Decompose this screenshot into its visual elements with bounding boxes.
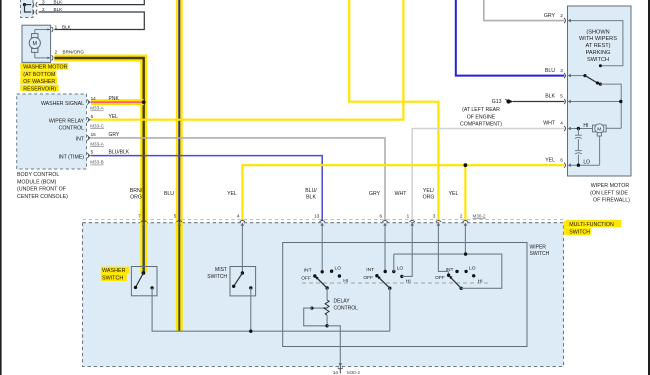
wire GRY to wiper motor pin 2 [484, 0, 565, 21]
svg-text:WHT: WHT [395, 191, 408, 197]
washer motor pin 1 symbol [47, 27, 53, 32]
parking switch caption [579, 29, 617, 63]
svg-text:M33-C: M33-C [90, 123, 104, 128]
junction HI [577, 127, 580, 130]
wire wafer 2 HI to pin 1 [402, 225, 412, 276]
svg-text:HI: HI [406, 278, 411, 284]
svg-text:PARKING: PARKING [586, 50, 611, 56]
svg-text:BLU/: BLU/ [305, 188, 317, 194]
wire BLK pin 2 (top connector) to washer motor pin 1 [25, 5, 145, 30]
svg-text:SWITCH: SWITCH [207, 274, 227, 280]
svg-text:GRY: GRY [109, 132, 120, 138]
svg-text:3: 3 [560, 68, 563, 73]
wire YEL wiper relay control [91, 0, 403, 120]
wiper switch wafer 1 feed from pin 13 [321, 225, 323, 272]
svg-text:YEL: YEL [227, 191, 237, 197]
svg-text:(UNDER FRONT OF: (UNDER FRONT OF [17, 187, 67, 193]
svg-text:OF ENGINE: OF ENGINE [467, 114, 496, 120]
svg-text:COMPARTMENT): COMPARTMENT) [460, 122, 502, 128]
svg-text:14: 14 [333, 370, 339, 375]
connector box (top left, cut off) [21, 0, 34, 18]
svg-text:CONTROL: CONTROL [59, 126, 84, 132]
label 3 BLK [42, 0, 63, 4]
svg-text:GRY: GRY [544, 13, 556, 19]
svg-text:2: 2 [55, 50, 58, 55]
junction LO [577, 164, 580, 167]
svg-text:INT: INT [446, 267, 454, 273]
wire LO inside wiper motor [571, 136, 600, 165]
svg-text:M: M [33, 41, 38, 47]
wiper motor box [568, 6, 632, 176]
svg-text:BODY CONTROL: BODY CONTROL [17, 172, 59, 178]
label 2 BLK [42, 7, 63, 12]
svg-text:BLU/BLK: BLU/BLK [109, 150, 130, 156]
svg-text:WITH WIPERS: WITH WIPERS [579, 36, 617, 42]
wire wafer 2 LO to common net [393, 254, 395, 271]
svg-text:INT: INT [366, 267, 374, 273]
svg-text:BRN/: BRN/ [130, 188, 143, 194]
washer motor box [22, 25, 51, 62]
svg-text:7: 7 [138, 213, 141, 218]
svg-text:OFF: OFF [363, 275, 373, 281]
svg-text:4: 4 [560, 121, 563, 126]
svg-text:DELAY: DELAY [334, 298, 351, 304]
svg-text:3: 3 [42, 0, 45, 4]
BCM caption [17, 172, 68, 200]
svg-text:(ON LEFT SIDE: (ON LEFT SIDE [590, 190, 628, 196]
washer switch caption (highlighted) [101, 267, 130, 282]
svg-text:LO: LO [469, 266, 476, 272]
wire BLK inside wiper motor [571, 102, 621, 129]
mist switch caption [207, 267, 227, 280]
svg-text:M30-2: M30-2 [473, 213, 486, 218]
svg-text:PNK: PNK [109, 96, 120, 102]
wiper switch wafer 2 feed from pin 6 [384, 225, 386, 272]
BCM signal names [41, 101, 85, 160]
svg-text:G13: G13 [492, 99, 502, 105]
svg-text:BLK: BLK [306, 195, 316, 201]
svg-text:LO: LO [397, 266, 404, 272]
capacitor C1 [575, 129, 582, 139]
svg-text:WASHER SIGNAL: WASHER SIGNAL [41, 101, 84, 107]
svg-text:2: 2 [460, 213, 463, 218]
svg-text:1: 1 [55, 24, 58, 29]
wire WHT to wiper motor pin 4 [412, 129, 564, 222]
svg-text:WIPER MOTOR: WIPER MOTOR [591, 183, 630, 189]
svg-text:2: 2 [42, 7, 45, 12]
BCM connector ids [90, 106, 104, 165]
BCM box (body control module) [17, 94, 87, 169]
mechanical linkage (dashed) [302, 282, 490, 284]
parking switch wire loop (GRY net) [571, 21, 623, 66]
washer motor M (motor symbol) [29, 30, 50, 58]
parking switch arm (BLU net) [571, 74, 621, 102]
svg-text:15: 15 [91, 132, 97, 137]
svg-text:5: 5 [560, 94, 563, 99]
svg-text:AT REST): AT REST) [586, 43, 611, 49]
svg-text:CONTROL: CONTROL [334, 305, 359, 311]
wire mist switch feed from pin 4 [241, 225, 243, 273]
svg-text:WIPER: WIPER [530, 244, 547, 250]
svg-text:LO: LO [335, 265, 342, 271]
svg-text:LO: LO [583, 159, 590, 165]
pin 2 connector symbol [33, 10, 38, 15]
svg-text:5: 5 [91, 114, 94, 119]
label delay control [334, 298, 359, 311]
svg-text:1: 1 [407, 213, 410, 218]
svg-text:OF FIREWALL): OF FIREWALL) [593, 197, 630, 203]
resistor delay control [325, 288, 329, 326]
washer motor pin 2 symbol [47, 55, 53, 60]
multi-function switch box [83, 220, 564, 367]
wire BRN/ORG washer motor to multi-function switch pin 7 [54, 58, 143, 272]
svg-text:WASHER: WASHER [102, 268, 126, 274]
node junction in top connector [23, 3, 26, 6]
svg-text:M33-A: M33-A [90, 106, 104, 111]
svg-text:SWITCH: SWITCH [569, 230, 590, 236]
wiper motor pins 2,3,5,4,6 [564, 18, 571, 168]
svg-text:CENTER CONSOLE): CENTER CONSOLE) [17, 194, 68, 200]
wiper motor pin labels [543, 13, 563, 164]
svg-text:YEL: YEL [449, 191, 459, 197]
svg-text:14: 14 [91, 96, 97, 101]
svg-text:M30-2: M30-2 [347, 370, 360, 375]
washer motor caption (highlighted) [20, 63, 68, 92]
wiper switch wafer 3 arm [449, 276, 461, 289]
svg-text:BLK: BLK [545, 94, 555, 100]
wire washer switch to rail [152, 288, 390, 331]
svg-text:(AT LEFT REAR: (AT LEFT REAR [462, 107, 500, 113]
svg-text:BLU: BLU [545, 68, 555, 74]
svg-text:5: 5 [91, 150, 94, 155]
svg-text:4: 4 [237, 213, 240, 218]
wiper switch wafer 1 arm [315, 276, 327, 288]
svg-text:ORG: ORG [423, 195, 435, 201]
wiper switch box [283, 243, 527, 347]
potentiometer tap loop [304, 307, 327, 326]
svg-text:MODULE (BCM): MODULE (BCM) [17, 179, 57, 185]
junction pin 2 / common net [464, 252, 467, 255]
svg-text:YEL/: YEL/ [423, 188, 435, 194]
svg-text:YEL: YEL [545, 157, 555, 163]
G13 caption [460, 99, 502, 127]
wafer 3 labels [435, 266, 483, 285]
svg-text:OF WASHER: OF WASHER [23, 79, 55, 85]
wire to ground pin 14 [327, 326, 340, 374]
wire YEL wiper motor pin 6 to multi-function switch pins 4 and 2 [242, 165, 564, 221]
svg-text:BRN/ORG: BRN/ORG [63, 50, 85, 55]
svg-text:HI: HI [478, 278, 483, 284]
wiper switch wafer 3 contacts [447, 270, 476, 290]
svg-text:YEL: YEL [109, 114, 119, 120]
ground G13 symbol [505, 99, 513, 103]
svg-text:SWITCH: SWITCH [587, 57, 609, 63]
svg-text:WASHER MOTOR: WASHER MOTOR [23, 65, 67, 71]
wire colour labels above pins [130, 188, 459, 201]
capacitor C2 [575, 139, 582, 165]
wire BLU/BLK INT(TIME) [91, 156, 322, 221]
wire wafer 3 arm to common net (with pin 2) [394, 225, 502, 288]
svg-text:2: 2 [560, 13, 563, 18]
svg-text:OFF: OFF [301, 275, 311, 281]
svg-text:M33-B: M33-B [90, 160, 104, 165]
svg-text:M: M [597, 126, 601, 132]
wire PNK washer signal (highlighted) [91, 99, 144, 105]
svg-text:HI: HI [583, 123, 588, 129]
svg-text:5: 5 [174, 213, 177, 218]
svg-text:3: 3 [433, 213, 436, 218]
junction mist / rail [249, 330, 252, 333]
junction PNK / BRN-ORG [142, 100, 146, 104]
wafer 1 labels [301, 265, 348, 284]
svg-text:INT (TIME): INT (TIME) [58, 154, 84, 160]
svg-text:13: 13 [314, 213, 320, 218]
multi-function switch pin symbols [141, 220, 468, 225]
pin 14 labels [333, 370, 361, 375]
svg-text:BLK: BLK [54, 7, 64, 12]
washer switch [131, 267, 157, 296]
svg-text:HI: HI [343, 278, 348, 284]
svg-text:(SHOWN: (SHOWN [586, 29, 609, 35]
mist switch [230, 267, 256, 332]
junction resistor bottom [325, 324, 328, 327]
BCM pin labels [91, 96, 130, 156]
wiper switch wafer 3 feed from pin 3 [438, 225, 448, 275]
wiper switch wafer 1 contacts [313, 270, 341, 290]
svg-text:WIPER RELAY: WIPER RELAY [49, 119, 85, 125]
wiper motor M (motor symbol) [571, 124, 621, 136]
svg-text:INT: INT [76, 136, 85, 142]
svg-text:SWITCH: SWITCH [102, 276, 123, 282]
svg-text:MULTI-FUNCTION: MULTI-FUNCTION [569, 222, 614, 228]
svg-text:OFF: OFF [435, 275, 445, 281]
svg-text:(AT BOTTOM: (AT BOTTOM [23, 72, 55, 78]
wire BLU to wiper motor pin 3 [456, 0, 565, 76]
wafer 2 labels [363, 266, 410, 285]
svg-text:BLU: BLU [164, 191, 174, 197]
svg-text:RESERVOIR): RESERVOIR) [23, 86, 56, 92]
wire BLU (highlighted) to multi-function switch pin 5 [176, 0, 183, 331]
wire YEL/ORG to multi-function switch pin 3 [349, 0, 438, 221]
svg-text:BLK: BLK [54, 0, 64, 4]
junction BLK / parking arm [619, 100, 622, 103]
svg-text:BLK: BLK [62, 24, 72, 29]
svg-text:MIST: MIST [215, 267, 227, 273]
BCM pin symbols [87, 100, 91, 159]
label 1 BLK [55, 24, 72, 29]
svg-text:M33-A: M33-A [90, 141, 104, 146]
svg-text:ORG: ORG [130, 195, 142, 201]
svg-text:GRY: GRY [369, 191, 381, 197]
multi-function switch pin numbers [138, 213, 486, 218]
svg-text:WHT: WHT [543, 121, 556, 127]
wiper switch wafer 2 arm [377, 276, 390, 288]
svg-text:SWITCH: SWITCH [530, 251, 550, 257]
svg-text:6: 6 [560, 157, 563, 162]
svg-text:INT: INT [304, 267, 312, 273]
label 2 BRN/ORG [55, 50, 85, 55]
wiper switch caption [530, 244, 550, 256]
pin 3 connector symbol [33, 2, 38, 7]
wire wafer 2 arm to rail [389, 288, 391, 331]
wiper switch wafer 2 contacts [375, 270, 403, 290]
parking switch contact (GRY side) [599, 64, 602, 67]
wire GRY INT [91, 138, 385, 221]
junction YEL branch [464, 163, 468, 167]
wire BLK G13 ground to wiper motor pin 5 [513, 101, 564, 103]
pin 14 symbol [338, 363, 343, 369]
wiper motor caption [590, 183, 630, 203]
svg-text:6: 6 [379, 213, 382, 218]
wire BLK pin 3 (top connector) [25, 0, 145, 5]
multi-function switch caption (highlighted) [564, 220, 622, 236]
